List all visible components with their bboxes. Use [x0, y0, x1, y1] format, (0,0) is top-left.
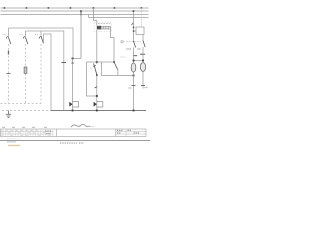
- footer colored segment orange: [8, 145, 20, 146]
- rail PE y=110.5 left faint: [2, 110, 51, 112]
- node tap dot on L1 col7: [141, 7, 143, 9]
- contact K1 blade: [94, 64, 97, 75]
- wire x=143 upper: [142, 35, 144, 41]
- terminal tick X1: [7, 73, 11, 75]
- bus line L3: [1, 14, 149, 16]
- device V1 arrow-box at x=72.5: [69, 102, 72, 107]
- junction dot (96.8,62): [96, 61, 98, 63]
- contact Q2b blade: [143, 41, 145, 48]
- terminal tick on x=63.8: [62, 62, 66, 64]
- vertical 143 mid: [142, 47, 144, 89]
- contact Q2a blade: [134, 41, 136, 48]
- junction dot (96.8,96): [96, 95, 98, 97]
- bus line L1: [1, 7, 149, 9]
- junction dot (133.5,60.5): [133, 60, 135, 62]
- breaker box Q2: [136, 27, 144, 35]
- title block divider: [56, 129, 58, 137]
- junction dot (133.5,75.5): [133, 75, 135, 77]
- wire A top horizontal: [9, 28, 74, 59]
- label K1: [91, 67, 94, 69]
- title block outer: [1, 129, 147, 137]
- wire y=58.5: [73, 58, 82, 60]
- riser G x=133.5 from L2: [133, 11, 135, 42]
- wire y=60.5 link: [134, 60, 144, 62]
- vertical 133.5 mid: [133, 48, 135, 111]
- wire y=62 to H2: [97, 61, 114, 63]
- signature squiggle: [71, 124, 90, 127]
- title text right cells: [117, 129, 123, 131]
- junction dot (72.5,63): [72, 62, 74, 64]
- seal-in loop wire: [87, 62, 97, 96]
- contact H2 blade: [113, 61, 115, 63]
- fuse body F2: [24, 67, 27, 74]
- footer line: [0, 140, 150, 142]
- wire riser x=81 from L2: [80, 11, 82, 59]
- lamp H2 oval: [140, 63, 145, 72]
- connector label text: [98, 23, 111, 25]
- node tap dot on L1 col3: [48, 7, 50, 9]
- switch Q1 branch x=41: [40, 31, 42, 37]
- ground symbol: [8, 111, 10, 115]
- title text marks left grid: [1, 130, 50, 135]
- rail N dashed y=103.5: [1, 103, 42, 105]
- main vertical lower: [96, 75, 98, 102]
- fuse body F1: [8, 51, 10, 55]
- junction dot (96.8,75): [96, 74, 98, 76]
- connector X2 terminal bar: [101, 26, 110, 29]
- linkage dashed line: [123, 41, 141, 43]
- label S1: [3, 34, 6, 36]
- tick bar right: [140, 53, 145, 55]
- title block fine grid: [3, 129, 53, 137]
- header text above table: [2, 126, 47, 128]
- terminal marks x=133.5 low: [132, 85, 136, 87]
- fuse-switch F1 branch x=8.5: [8, 28, 10, 38]
- title text center: [45, 130, 52, 132]
- junction dot (96.8,110.5): [96, 110, 98, 112]
- fuse-switch F2 branch x=25.5: [25, 31, 27, 38]
- footer text: [60, 142, 77, 144]
- title block row lines left: [1, 131, 54, 133]
- label S3: [35, 34, 38, 36]
- junction dot (143,60.5): [142, 60, 144, 62]
- label K2 text: [121, 56, 126, 58]
- contact tick y=87.5: [95, 87, 97, 88]
- bus line L2: [1, 10, 149, 12]
- label S2: [20, 34, 23, 36]
- vertical wire x=72.5 lower: [72, 59, 74, 102]
- wire B top horizontal: [26, 31, 64, 111]
- junction dot (72.5,58.5): [72, 58, 74, 60]
- node tap dot on L1 col5: [93, 7, 95, 9]
- actuator text mark: [121, 41, 123, 43]
- node tap dot on L1 col1: [4, 7, 6, 9]
- rail PE y=110.5 solid: [51, 110, 146, 112]
- terminal marks x=143 end: [141, 85, 145, 87]
- riser from L1 dot to box top: [141, 8, 143, 27]
- footer faint marks: [7, 138, 21, 140]
- tick bar left: [134, 55, 138, 57]
- riser F from L1 dot x=93.5: [94, 8, 97, 21]
- node tap dot on L1 col4: [70, 7, 72, 9]
- wire E from L3 tap: [88, 15, 90, 18]
- main vertical x=96.8 upper: [96, 21, 98, 26]
- junction dot (133.5,110.5): [133, 110, 135, 112]
- node tap dot on L1 col6: [114, 7, 116, 9]
- node tap dot on L1 col2: [26, 7, 28, 9]
- title block row lines right: [116, 131, 146, 133]
- footer colored segment blue: [7, 141, 16, 142]
- junction dot (72.5,110.5): [72, 110, 74, 112]
- connector X2 dark block: [94, 23, 112, 32]
- lamp H1 oval: [131, 63, 136, 72]
- coil K1 arrow-box: [94, 102, 97, 107]
- wire dogleg from connector to H2: [111, 29, 115, 62]
- label text right K: [127, 48, 132, 50]
- arrow tick on riser G: [132, 23, 134, 25]
- wire y=75.5: [102, 62, 134, 76]
- wire arch C: [44, 34, 52, 111]
